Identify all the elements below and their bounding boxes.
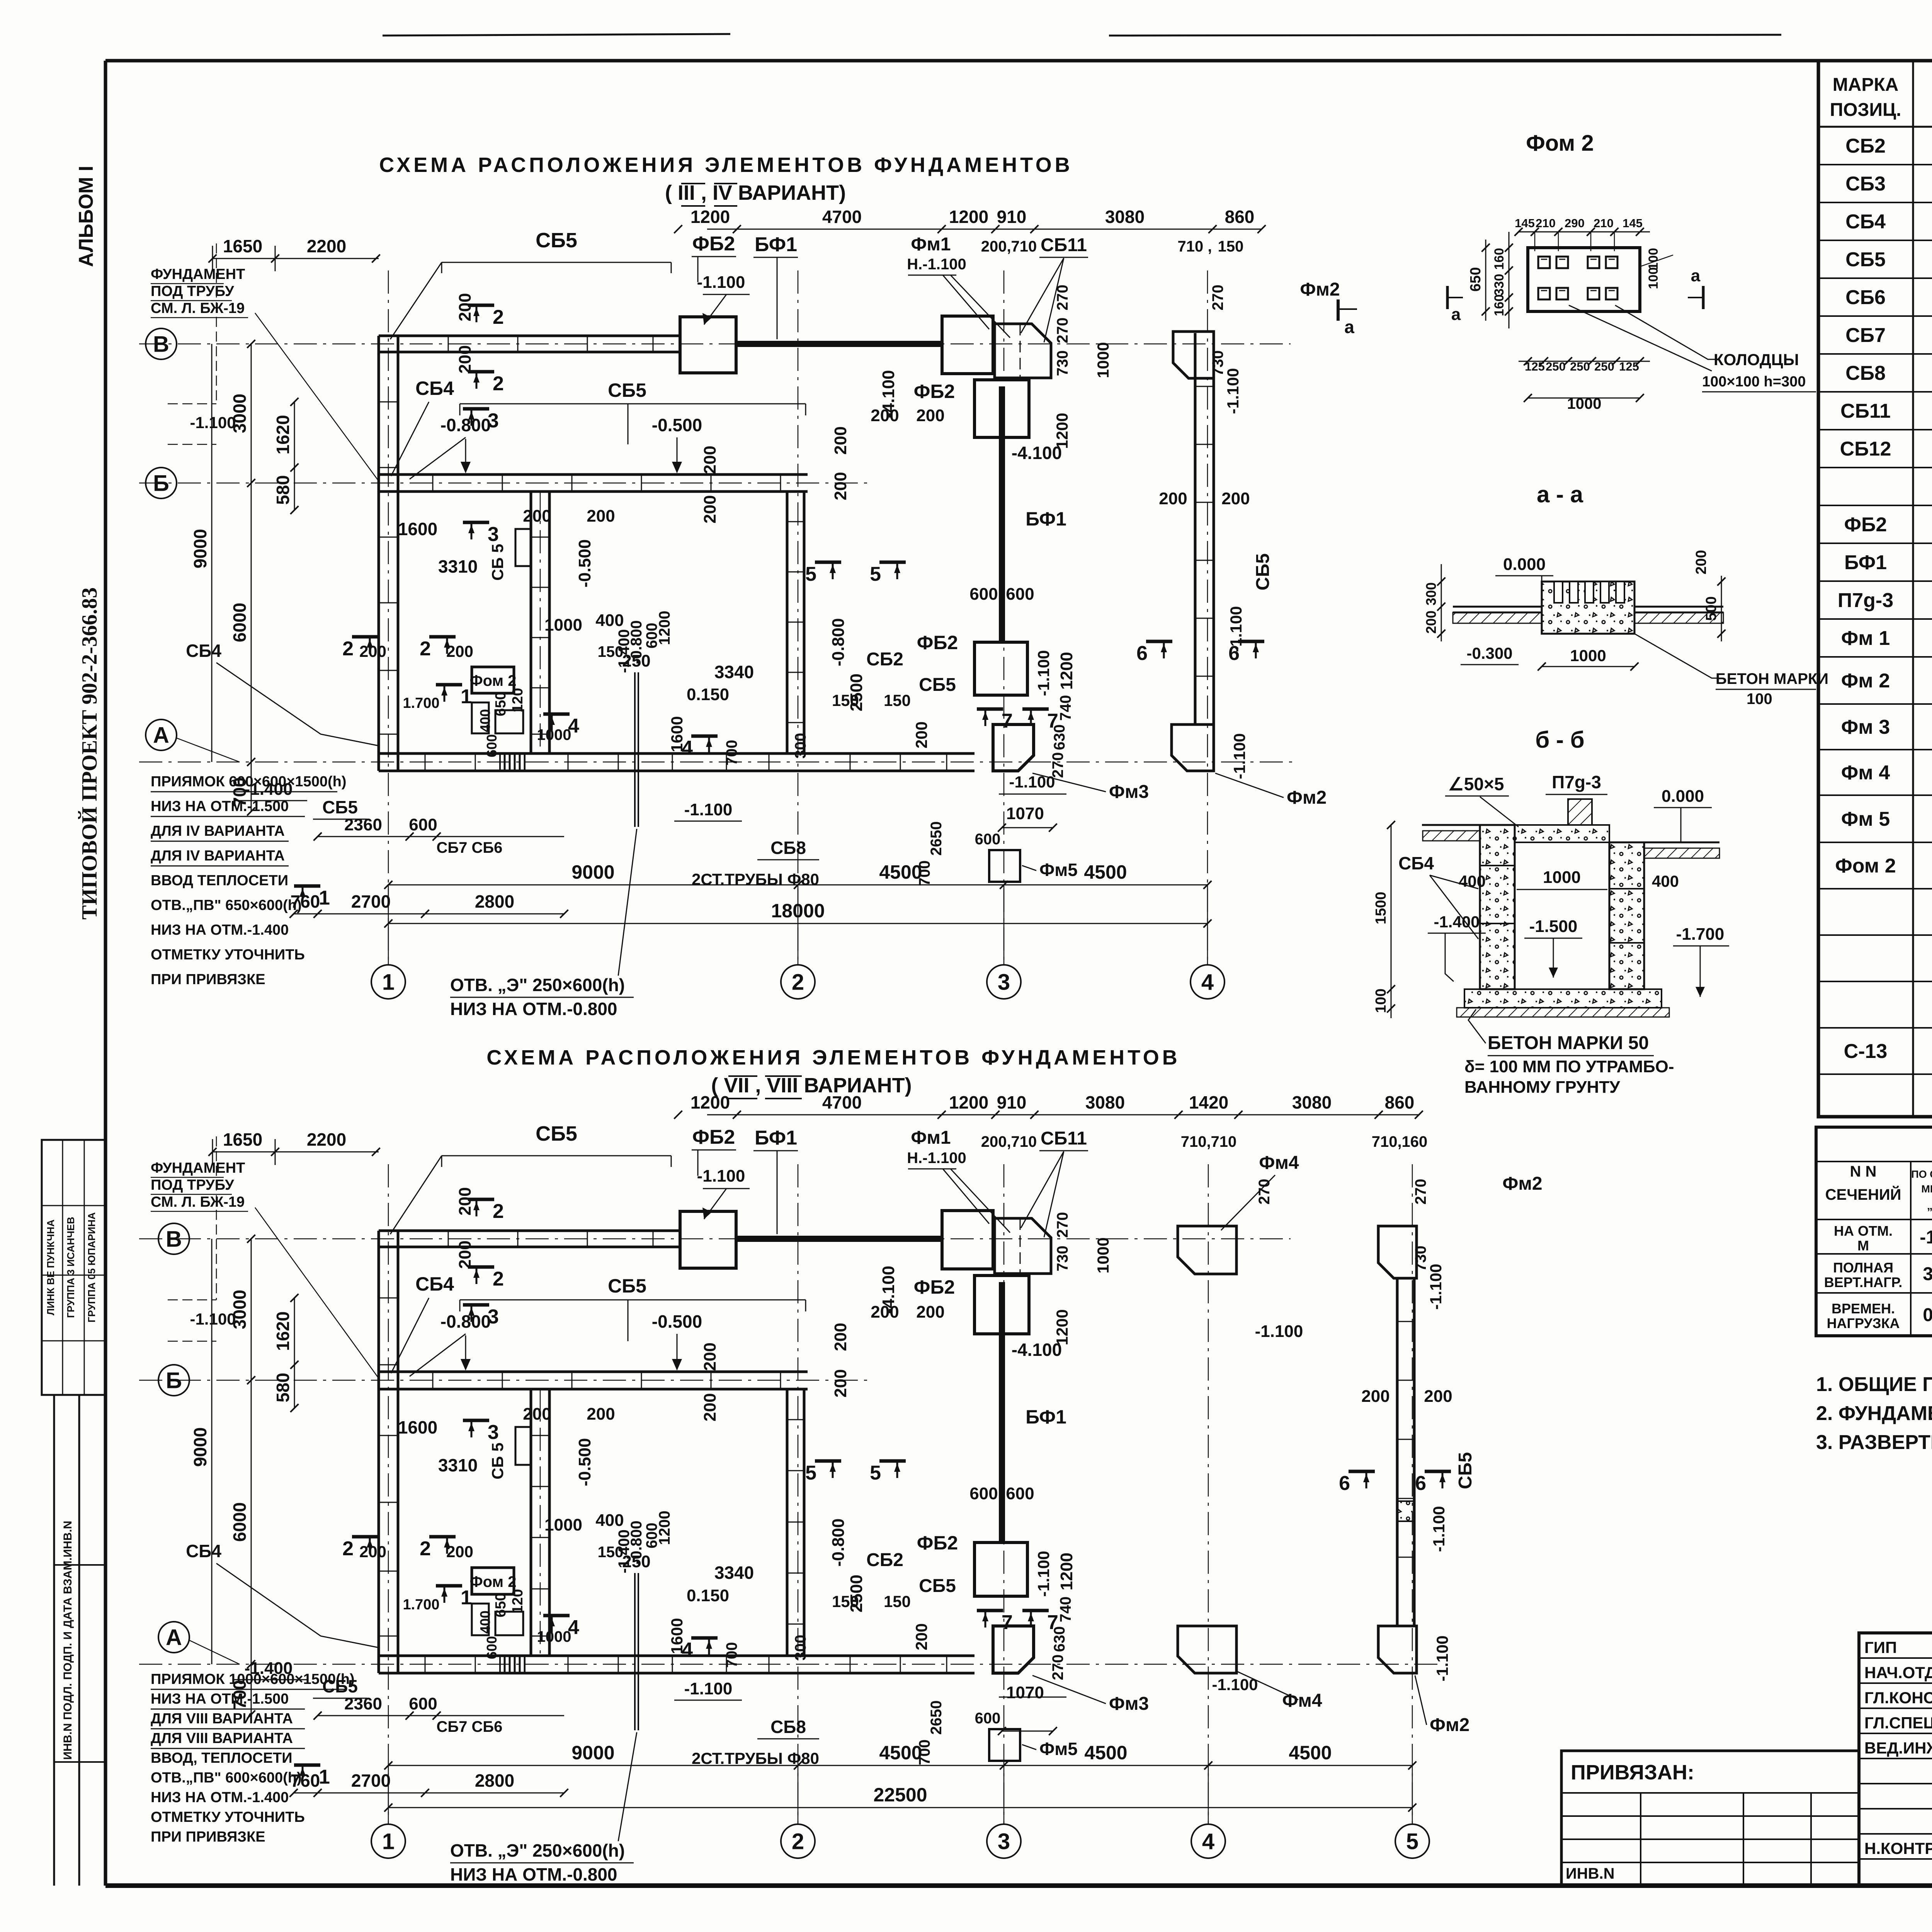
svg-text:ВЕД.ИНЖ: ВЕД.ИНЖ bbox=[1864, 1739, 1932, 1757]
section mark a top right bbox=[1221, 1175, 1275, 1230]
svg-text:9000: 9000 bbox=[571, 1742, 614, 1764]
svg-text:2360: 2360 bbox=[344, 815, 382, 834]
svg-text:СБ7: СБ7 bbox=[1845, 324, 1886, 347]
svg-text:-1.100: -1.100 bbox=[684, 1679, 733, 1698]
svg-text:200: 200 bbox=[587, 1405, 615, 1423]
svg-text:6: 6 bbox=[1228, 642, 1240, 665]
small hatched block in axis5 wall bbox=[1397, 1501, 1414, 1521]
svg-text:200: 200 bbox=[1693, 550, 1709, 574]
svg-text:БФ1: БФ1 bbox=[755, 1127, 797, 1149]
svg-text:2360: 2360 bbox=[344, 1694, 382, 1713]
svg-text:2: 2 bbox=[493, 372, 504, 395]
svg-text:1200: 1200 bbox=[1057, 652, 1076, 690]
svg-text:Б: Б bbox=[166, 1368, 182, 1393]
svg-text:Фм 5: Фм 5 bbox=[1841, 808, 1890, 830]
svg-text:0.21: 0.21 bbox=[1923, 1305, 1932, 1325]
svg-text:-0.800: -0.800 bbox=[440, 415, 491, 435]
top wall bbox=[379, 335, 680, 337]
svg-text:4500: 4500 bbox=[879, 1742, 922, 1764]
svg-text:1620: 1620 bbox=[273, 1311, 293, 1351]
svg-text:7: 7 bbox=[1002, 710, 1013, 732]
svg-text:В: В bbox=[166, 1226, 182, 1252]
footing Fm4 bottom axis 4 bbox=[1178, 1626, 1236, 1673]
svg-text:1.700: 1.700 bbox=[403, 695, 439, 711]
b-b ground lines bbox=[1422, 824, 1480, 826]
svg-text:100: 100 bbox=[1646, 248, 1661, 270]
svg-text:1000: 1000 bbox=[1567, 395, 1602, 412]
svg-text:200: 200 bbox=[446, 642, 473, 660]
footing top axis 5 bbox=[1378, 1226, 1417, 1278]
partition wall SB5 bbox=[530, 492, 532, 753]
svg-text:-1.100: -1.100 bbox=[1430, 1506, 1448, 1552]
svg-text:910: 910 bbox=[997, 207, 1027, 227]
svg-text:1200: 1200 bbox=[656, 1511, 673, 1545]
svg-text:7: 7 bbox=[1047, 1611, 1058, 1634]
svg-text:-0.800: -0.800 bbox=[440, 1311, 491, 1332]
svg-text:-0.300: -0.300 bbox=[1466, 644, 1512, 662]
svg-text:ФБ2: ФБ2 bbox=[917, 1532, 958, 1554]
svg-text:2650: 2650 bbox=[928, 821, 945, 856]
svg-text:ВРЕМЕН.: ВРЕМЕН. bbox=[1832, 1301, 1895, 1316]
svg-text:ПО ОСИ„В": ПО ОСИ„В" bbox=[1911, 1168, 1932, 1180]
svg-text:СХЕМА РАСПОЛОЖЕНИЯ ЭЛЕМЕНТОВ: СХЕМА РАСПОЛОЖЕНИЯ ЭЛЕМЕНТОВ ФУНДАМЕНТОВ bbox=[486, 1046, 1180, 1069]
svg-text:СБ12: СБ12 bbox=[1840, 438, 1891, 460]
svg-text:ПОД ТРУБУ: ПОД ТРУБУ bbox=[151, 283, 234, 299]
svg-text:ОТВ.„ПВ" 650×600(h): ОТВ.„ПВ" 650×600(h) bbox=[151, 897, 302, 913]
svg-text:П7g-3: П7g-3 bbox=[1838, 589, 1893, 612]
svg-text:БФ1: БФ1 bbox=[1026, 508, 1066, 530]
svg-text:НИЗ НА ОТМ.-0.800: НИЗ НА ОТМ.-0.800 bbox=[450, 999, 617, 1019]
svg-text:СБ5: СБ5 bbox=[1455, 1452, 1476, 1489]
b-b bottom slab bbox=[1464, 989, 1662, 1008]
svg-text:СБ8: СБ8 bbox=[1845, 362, 1886, 384]
svg-text:2. ФУНДАМЕНТЫ Фм-1÷Фм-4 СМ.: 2. ФУНДАМЕНТЫ Фм-1÷Фм-4 СМ. ЛИСТ КЖ-6; Ф… bbox=[1816, 1402, 1932, 1425]
svg-text:-1.100: -1.100 bbox=[697, 1167, 745, 1185]
axis centrelines bbox=[139, 344, 1291, 345]
svg-text:7: 7 bbox=[1047, 710, 1058, 732]
svg-text:НА ОТМ.: НА ОТМ. bbox=[1834, 1223, 1893, 1239]
svg-text:710,160: 710,160 bbox=[1372, 1133, 1428, 1150]
svg-text:730: 730 bbox=[1054, 1246, 1071, 1272]
svg-text:2700: 2700 bbox=[351, 1770, 391, 1791]
Fom2 top dim bbox=[1519, 231, 1650, 233]
svg-text:4: 4 bbox=[682, 1639, 693, 1661]
svg-text:2: 2 bbox=[420, 1537, 431, 1560]
svg-text:4700: 4700 bbox=[822, 207, 862, 227]
equipment foundation Fom2 bbox=[472, 667, 514, 693]
svg-text:250: 250 bbox=[1546, 360, 1566, 373]
svg-text:200: 200 bbox=[456, 1240, 474, 1269]
svg-text:1600: 1600 bbox=[398, 1417, 437, 1437]
svg-text:1000: 1000 bbox=[544, 1515, 582, 1534]
svg-text:ФБ2: ФБ2 bbox=[1844, 514, 1887, 536]
svg-text:100: 100 bbox=[1747, 690, 1772, 707]
svg-text:120: 120 bbox=[510, 1589, 526, 1613]
a-a body bbox=[1542, 582, 1634, 634]
svg-text:600: 600 bbox=[409, 1694, 437, 1713]
svg-text:600: 600 bbox=[1006, 585, 1034, 604]
svg-text:СБ2: СБ2 bbox=[866, 649, 903, 670]
svg-text:1620: 1620 bbox=[273, 415, 293, 454]
svg-text:1: 1 bbox=[461, 1587, 472, 1609]
pit (hatched) in bottom wall bbox=[500, 1656, 525, 1673]
svg-text:200: 200 bbox=[1423, 611, 1439, 634]
svg-text:3: 3 bbox=[998, 969, 1010, 995]
small blocks near Fom2 bbox=[472, 1604, 489, 1635]
svg-text:1: 1 bbox=[461, 685, 472, 708]
svg-text:ГЛ.СПЕЦ.: ГЛ.СПЕЦ. bbox=[1864, 1714, 1932, 1732]
svg-text:ПРИЯМОК 1000×600×1500(h): ПРИЯМОК 1000×600×1500(h) bbox=[151, 1671, 355, 1687]
svg-text:ФБ2: ФБ2 bbox=[692, 233, 735, 255]
svg-text:СБ5: СБ5 bbox=[919, 675, 956, 695]
svg-text:600: 600 bbox=[975, 831, 1001, 848]
svg-text:ОТМЕТКУ УТОЧНИТЬ: ОТМЕТКУ УТОЧНИТЬ bbox=[151, 1809, 305, 1825]
svg-text:А: А bbox=[153, 723, 169, 748]
beam BF1 vertical bbox=[999, 1282, 1005, 1543]
svg-text:0.150: 0.150 bbox=[687, 1586, 729, 1605]
svg-text:Фм5: Фм5 bbox=[1039, 1739, 1078, 1759]
svg-text:Фм2: Фм2 bbox=[1430, 1715, 1469, 1735]
svg-text:1200: 1200 bbox=[949, 1092, 988, 1112]
interior wall axis 2 bbox=[786, 492, 789, 753]
top dimension chain bbox=[707, 229, 1262, 230]
svg-text:А: А bbox=[166, 1625, 182, 1650]
svg-text:6: 6 bbox=[1415, 1472, 1426, 1495]
svg-text:1000: 1000 bbox=[1094, 342, 1112, 378]
svg-text:Фм5: Фм5 bbox=[1039, 860, 1078, 880]
section mark 1 bottom bbox=[294, 1764, 320, 1767]
lower small dimension chains bbox=[294, 913, 564, 915]
svg-text:ФУНДАМЕНТ: ФУНДАМЕНТ bbox=[151, 1160, 245, 1176]
svg-text:СБ5: СБ5 bbox=[919, 1576, 956, 1596]
bottom dimension chains bbox=[388, 884, 1207, 886]
bottom wall bbox=[379, 752, 804, 755]
svg-text:2200: 2200 bbox=[307, 1129, 346, 1150]
table column lines bbox=[1912, 61, 1914, 1117]
svg-text:200: 200 bbox=[831, 426, 850, 454]
section marks bbox=[468, 304, 494, 307]
svg-text:Фм 4: Фм 4 bbox=[1841, 762, 1890, 784]
svg-text:710 ,: 710 , bbox=[1178, 238, 1212, 255]
svg-text:П7g-3: П7g-3 bbox=[1552, 772, 1601, 792]
svg-text:СБ6: СБ6 bbox=[1845, 286, 1886, 309]
svg-text:400: 400 bbox=[595, 1511, 624, 1530]
svg-text:250: 250 bbox=[1594, 360, 1614, 373]
svg-text:НИЗ НА ОТМ.-1.500: НИЗ НА ОТМ.-1.500 bbox=[151, 1691, 289, 1707]
svg-text:150: 150 bbox=[884, 691, 911, 709]
block SB11 bbox=[995, 1218, 1051, 1274]
svg-text:200: 200 bbox=[359, 642, 386, 660]
svg-text:740: 740 bbox=[1057, 695, 1074, 721]
block SB11 bbox=[995, 324, 1051, 378]
svg-text:Фм 3: Фм 3 bbox=[1841, 716, 1890, 738]
svg-text:270: 270 bbox=[1412, 1179, 1429, 1205]
b-b top slab bbox=[1515, 825, 1609, 842]
middle wall bbox=[379, 1371, 808, 1373]
axis centrelines bbox=[139, 1238, 1291, 1240]
svg-text:9000: 9000 bbox=[190, 529, 210, 568]
svg-text:270: 270 bbox=[1209, 285, 1226, 311]
svg-text:1: 1 bbox=[382, 969, 395, 995]
svg-text:Фм2: Фм2 bbox=[1502, 1173, 1542, 1194]
svg-text:Фм1: Фм1 bbox=[911, 234, 951, 255]
svg-text:100: 100 bbox=[1646, 267, 1661, 289]
svg-text:1000: 1000 bbox=[544, 616, 582, 634]
svg-text:270: 270 bbox=[1054, 318, 1071, 344]
svg-text:( III , IV ВАРИАНТ): ( III , IV ВАРИАНТ) bbox=[665, 181, 846, 204]
svg-text:2: 2 bbox=[792, 1829, 804, 1854]
svg-text:Фм 1: Фм 1 bbox=[1841, 627, 1890, 650]
partition wall SB5 bbox=[530, 1389, 532, 1656]
svg-text:4: 4 bbox=[1202, 1829, 1214, 1854]
svg-text:2СТ.ТРУБЫ Ф80: 2СТ.ТРУБЫ Ф80 bbox=[692, 1749, 819, 1767]
svg-text:АЛЬБОМ I: АЛЬБОМ I bbox=[75, 166, 97, 267]
svg-text:-1.100: -1.100 bbox=[1224, 368, 1242, 414]
svg-text:Н.-1.100: Н.-1.100 bbox=[907, 256, 966, 273]
svg-text:СБ8: СБ8 bbox=[770, 1717, 806, 1737]
svg-text:290: 290 bbox=[1565, 216, 1585, 230]
svg-text:-1.100: -1.100 bbox=[684, 800, 733, 819]
svg-text:7: 7 bbox=[1002, 1611, 1013, 1634]
svg-text:-1.500: -1.500 bbox=[1529, 917, 1578, 936]
svg-text:СБ5: СБ5 bbox=[1253, 553, 1273, 590]
svg-text:22500: 22500 bbox=[873, 1784, 927, 1806]
svg-text:1070: 1070 bbox=[1006, 804, 1044, 823]
svg-text:100×100 h=300: 100×100 h=300 bbox=[1702, 374, 1806, 390]
bottom axis circles bbox=[371, 965, 405, 999]
svg-text:1: 1 bbox=[319, 887, 330, 909]
svg-text:-4.100: -4.100 bbox=[879, 1266, 898, 1314]
svg-text:600: 600 bbox=[975, 1710, 1001, 1727]
svg-text:600: 600 bbox=[409, 815, 437, 834]
wall axis 4 bbox=[1194, 333, 1197, 724]
svg-text:КОЛОДЦЫ: КОЛОДЦЫ bbox=[1714, 350, 1799, 369]
svg-text:-1.100: -1.100 bbox=[190, 1310, 236, 1328]
svg-text:200: 200 bbox=[831, 472, 850, 500]
svg-text:СБ4: СБ4 bbox=[415, 378, 454, 399]
interior wall axis 2 bbox=[786, 1389, 789, 1656]
svg-text:СМ. Л. БЖ-19: СМ. Л. БЖ-19 bbox=[151, 300, 245, 316]
foundation plate FB2 no.1 bbox=[680, 317, 736, 373]
svg-text:6000: 6000 bbox=[230, 1502, 250, 1542]
svg-text:330: 330 bbox=[1492, 274, 1507, 296]
svg-text:600: 600 bbox=[484, 734, 500, 757]
block below SB11 bbox=[975, 380, 1029, 437]
svg-text:БЕТОН МАРКИ 50: БЕТОН МАРКИ 50 bbox=[1488, 1033, 1649, 1053]
svg-text:0.150: 0.150 bbox=[687, 685, 729, 704]
svg-text:120: 120 bbox=[510, 688, 526, 712]
left wall axis 1 bbox=[378, 1231, 380, 1673]
svg-text:1: 1 bbox=[319, 1766, 330, 1788]
svg-text:∠50×5: ∠50×5 bbox=[1448, 774, 1504, 794]
svg-text:210: 210 bbox=[1594, 216, 1614, 230]
svg-text:ДЛЯ IV ВАРИАНТА: ДЛЯ IV ВАРИАНТА bbox=[151, 848, 285, 864]
svg-text:300: 300 bbox=[1423, 582, 1439, 605]
svg-text:9000: 9000 bbox=[190, 1427, 210, 1467]
svg-text:1070: 1070 bbox=[1006, 1683, 1044, 1702]
svg-text:4500: 4500 bbox=[879, 861, 922, 883]
svg-text:ВВОД, ТЕПЛОСЕТИ: ВВОД, ТЕПЛОСЕТИ bbox=[151, 1750, 293, 1766]
svg-text:2800: 2800 bbox=[475, 1770, 514, 1791]
svg-text:730: 730 bbox=[1209, 350, 1226, 376]
beam BF1 vertical bbox=[999, 386, 1005, 642]
svg-text:1.700: 1.700 bbox=[403, 1597, 439, 1613]
top wall bbox=[379, 1230, 680, 1232]
svg-text:СБ11: СБ11 bbox=[1041, 235, 1087, 255]
svg-text:ГРУППА 3 ИСАНЧЕВ: ГРУППА 3 ИСАНЧЕВ bbox=[65, 1217, 77, 1318]
table rows bbox=[1818, 126, 1932, 128]
svg-text:СБ4: СБ4 bbox=[186, 641, 221, 661]
foundation plate FB2 no.1 bbox=[680, 1211, 736, 1268]
svg-text:5: 5 bbox=[870, 1462, 881, 1484]
svg-text:1200: 1200 bbox=[949, 207, 988, 227]
svg-text:1000: 1000 bbox=[1543, 868, 1581, 887]
svg-text:160: 160 bbox=[1492, 248, 1507, 270]
mid wall SB5 bracket bbox=[460, 1299, 806, 1301]
svg-text:БФ1: БФ1 bbox=[755, 233, 797, 256]
svg-text:100: 100 bbox=[1373, 988, 1389, 1013]
svg-text:600: 600 bbox=[1006, 1484, 1034, 1503]
svg-text:-1.400: -1.400 bbox=[1434, 913, 1480, 931]
svg-text:1200: 1200 bbox=[1057, 1553, 1076, 1590]
svg-text:-1.100: -1.100 bbox=[1427, 1264, 1445, 1310]
svg-text:СБ11: СБ11 bbox=[1840, 400, 1891, 422]
svg-text:200: 200 bbox=[456, 1187, 474, 1215]
svg-text:-1.100: -1.100 bbox=[697, 273, 745, 292]
svg-text:600: 600 bbox=[969, 1484, 998, 1503]
wall axis 5 bbox=[1396, 1278, 1399, 1626]
svg-text:ДЛЯ VIII ВАРИАНТА: ДЛЯ VIII ВАРИАНТА bbox=[151, 1711, 293, 1727]
svg-text:1200: 1200 bbox=[1053, 413, 1071, 449]
svg-text:6000: 6000 bbox=[230, 603, 250, 642]
leader lines top bbox=[442, 1155, 671, 1156]
svg-text:ФБ2: ФБ2 bbox=[917, 632, 958, 653]
svg-text:СБ2: СБ2 bbox=[866, 1550, 903, 1570]
svg-text:СБ3: СБ3 bbox=[1845, 173, 1886, 195]
svg-text:2700: 2700 bbox=[351, 891, 391, 912]
svg-text:М: М bbox=[1857, 1238, 1869, 1253]
svg-text:300: 300 bbox=[792, 1635, 809, 1661]
svg-text:2: 2 bbox=[493, 306, 504, 328]
svg-text:ГРУППА 05 ЮПАРИНА: ГРУППА 05 ЮПАРИНА bbox=[86, 1212, 97, 1323]
svg-text:БЕТОН МАРКИ: БЕТОН МАРКИ bbox=[1716, 670, 1828, 687]
svg-text:2200: 2200 bbox=[307, 236, 346, 256]
footing bottom axis 5 (Fm2) bbox=[1378, 1626, 1417, 1673]
svg-text:СБ4: СБ4 bbox=[1845, 211, 1886, 233]
svg-text:ИНВ.N ПОДЛ. ПОДП. И ДАТА В: ИНВ.N ПОДЛ. ПОДП. И ДАТА ВЗАМ.ИНВ.N bbox=[61, 1521, 74, 1760]
svg-text:3080: 3080 bbox=[1085, 1092, 1125, 1112]
svg-text:700: 700 bbox=[916, 1740, 933, 1765]
svg-text:4500: 4500 bbox=[1084, 861, 1127, 883]
svg-text:580: 580 bbox=[273, 1373, 293, 1403]
svg-text:400: 400 bbox=[1652, 872, 1679, 890]
svg-text:ФБ2: ФБ2 bbox=[914, 381, 955, 402]
svg-text:ВАННОМУ ГРУНТУ: ВАННОМУ ГРУНТУ bbox=[1464, 1078, 1620, 1097]
footing bottom axis 4 (Fm2) bbox=[1172, 724, 1214, 771]
svg-text:600: 600 bbox=[969, 585, 998, 604]
svg-text:СБ4: СБ4 bbox=[1398, 853, 1434, 873]
section marks bbox=[468, 1198, 494, 1201]
svg-text:200: 200 bbox=[912, 721, 930, 748]
svg-text:200: 200 bbox=[701, 495, 719, 523]
svg-text:-0.800: -0.800 bbox=[829, 618, 848, 667]
svg-text:СХЕМА РАСПОЛОЖЕНИЯ ЭЛЕМЕНТОВ: СХЕМА РАСПОЛОЖЕНИЯ ЭЛЕМЕНТОВ ФУНДАМЕНТОВ bbox=[379, 153, 1073, 177]
svg-text:500: 500 bbox=[1703, 596, 1719, 621]
svg-text:-1.100: -1.100 bbox=[1034, 1551, 1053, 1597]
svg-text:3310: 3310 bbox=[438, 1455, 478, 1475]
svg-text:СЕЧЕНИЙ: СЕЧЕНИЙ bbox=[1825, 1185, 1901, 1203]
svg-text:2: 2 bbox=[792, 969, 804, 995]
svg-text:3080: 3080 bbox=[1292, 1092, 1332, 1112]
svg-text:2500: 2500 bbox=[847, 673, 866, 711]
svg-text:200: 200 bbox=[701, 1342, 719, 1371]
svg-text:СБ4: СБ4 bbox=[415, 1273, 454, 1295]
svg-text:НАГРУЗКА: НАГРУЗКА bbox=[1827, 1315, 1900, 1331]
svg-text:9000: 9000 bbox=[571, 861, 614, 883]
svg-text:4: 4 bbox=[1201, 969, 1214, 995]
svg-text:НАЧ.ОТД.: НАЧ.ОТД. bbox=[1864, 1663, 1932, 1682]
svg-text:200: 200 bbox=[701, 446, 719, 474]
svg-text:НИЗ НА ОТМ.-1.500: НИЗ НА ОТМ.-1.500 bbox=[151, 798, 289, 815]
svg-text:СБ5: СБ5 bbox=[1845, 248, 1886, 271]
two steel pipes bbox=[634, 1573, 636, 1730]
svg-text:740: 740 bbox=[1057, 1597, 1074, 1622]
svg-text:-0.500: -0.500 bbox=[652, 1311, 702, 1332]
svg-text:1200: 1200 bbox=[690, 207, 730, 227]
svg-text:3340: 3340 bbox=[714, 1563, 754, 1583]
svg-text:300: 300 bbox=[792, 733, 809, 759]
svg-text:-1.700: -1.700 bbox=[1676, 925, 1725, 944]
svg-text:Фом 2: Фом 2 bbox=[470, 672, 517, 689]
svg-text:200: 200 bbox=[912, 1623, 930, 1650]
bottom axis circles bbox=[371, 1824, 405, 1858]
svg-text:710,710: 710,710 bbox=[1181, 1133, 1237, 1150]
svg-text:2СТ.ТРУБЫ Ф80: 2СТ.ТРУБЫ Ф80 bbox=[692, 870, 819, 888]
svg-text:1: 1 bbox=[382, 1829, 395, 1854]
svg-text:1420: 1420 bbox=[1189, 1092, 1228, 1112]
svg-text:200: 200 bbox=[916, 1303, 944, 1321]
two steel pipes bbox=[634, 672, 636, 827]
svg-text:-0.500: -0.500 bbox=[575, 539, 594, 588]
svg-text:( VII , VIII ВАРИАНТ): ( VII , VIII ВАРИАНТ) bbox=[711, 1074, 912, 1097]
Fom2 section marks a-a bbox=[1446, 286, 1449, 309]
svg-text:200: 200 bbox=[831, 1369, 850, 1397]
svg-text:400: 400 bbox=[1459, 872, 1486, 890]
svg-text:200: 200 bbox=[1361, 1387, 1389, 1406]
table outer border bbox=[1818, 61, 1932, 1117]
svg-text:НИЗ НА ОТМ.-1.400: НИЗ НА ОТМ.-1.400 bbox=[151, 922, 289, 938]
svg-text:3080: 3080 bbox=[1105, 207, 1145, 227]
svg-text:СБ7 СБ6: СБ7 СБ6 bbox=[437, 839, 503, 856]
svg-text:Фм2: Фм2 bbox=[1300, 279, 1340, 300]
left margin upper stamp table bbox=[42, 1140, 105, 1395]
equipment foundation Fom2 bbox=[472, 1568, 514, 1594]
svg-text:а: а bbox=[1451, 305, 1461, 324]
svg-text:СБ11: СБ11 bbox=[1041, 1128, 1087, 1149]
svg-text:1200: 1200 bbox=[656, 611, 673, 645]
svg-text:200: 200 bbox=[359, 1543, 386, 1561]
Fom2 left dims bbox=[1509, 232, 1510, 328]
svg-text:200,710: 200,710 bbox=[981, 1133, 1037, 1150]
svg-text:200: 200 bbox=[587, 507, 615, 526]
svg-text:200: 200 bbox=[1424, 1387, 1452, 1406]
middle wall bbox=[379, 473, 808, 476]
svg-text:МАРКА: МАРКА bbox=[1833, 75, 1899, 95]
svg-text:ПОЛНАЯ: ПОЛНАЯ bbox=[1833, 1260, 1893, 1276]
svg-text:400: 400 bbox=[477, 709, 493, 732]
svg-text:1000: 1000 bbox=[1094, 1237, 1112, 1273]
svg-text:2800: 2800 bbox=[475, 891, 514, 912]
